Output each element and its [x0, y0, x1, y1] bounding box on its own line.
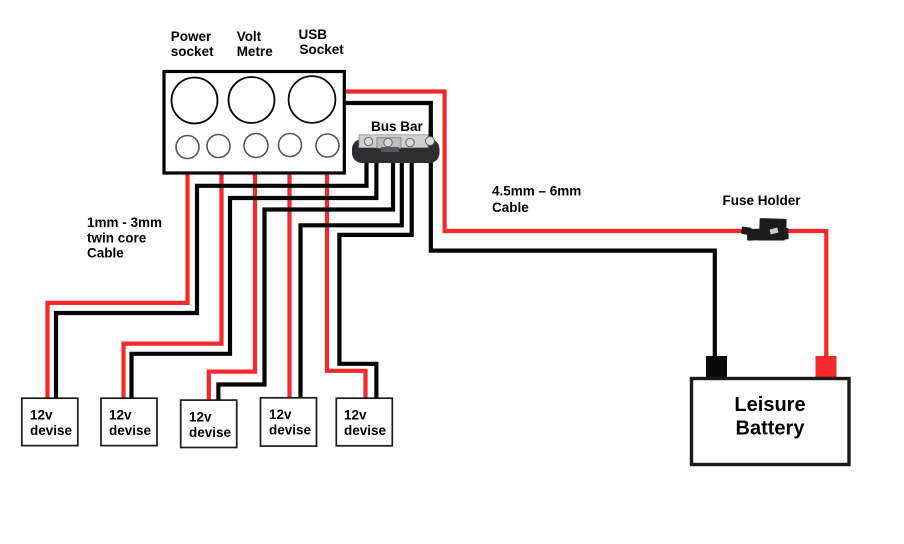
small switch hole 2 — [207, 135, 230, 158]
label: 4.5mm - 6mm Cable — [492, 184, 581, 215]
wire: black bus bar to 12v devise 5 — [339, 152, 411, 402]
svg-text:Bus Bar: Bus Bar — [371, 119, 424, 134]
bus bar screw 3 — [406, 138, 414, 146]
bus bar screw 1 — [364, 137, 372, 145]
svg-text:12v: 12v — [109, 407, 132, 422]
12v devise box 3 — [181, 400, 237, 447]
12v devise box 2 — [101, 398, 157, 445]
svg-text:Socket: Socket — [300, 42, 345, 57]
label: USB Socket — [299, 27, 345, 57]
switch panel (power socket / volt metre / usb socket) — [164, 72, 344, 174]
wire: red twin-core to 12v devise 3 — [209, 170, 255, 404]
svg-text:Leisure: Leisure — [734, 394, 805, 416]
svg-text:12v: 12v — [344, 407, 367, 422]
svg-text:devise: devise — [269, 423, 312, 438]
svg-text:devise: devise — [109, 423, 152, 438]
small switch hole 3 — [244, 134, 268, 158]
label: Volt Metre — [237, 29, 274, 59]
svg-text:12v: 12v — [30, 407, 53, 422]
12v devise box 5 — [336, 398, 392, 446]
svg-text:Battery: Battery — [736, 418, 806, 440]
wire: black bus bar to 12v devise 2 — [132, 152, 377, 402]
svg-text:Fuse Holder: Fuse Holder — [723, 193, 802, 208]
bus bar terminal plate detail — [377, 138, 401, 149]
battery positive terminal — [816, 356, 837, 378]
wire: red twin-core to 12v devise 4 — [287, 170, 291, 402]
bus bar component — [352, 127, 440, 163]
wire: black panel negative to bus bar — [342, 103, 431, 144]
svg-text:4.5mm – 6mm: 4.5mm – 6mm — [492, 184, 581, 199]
usb socket hole — [289, 76, 336, 123]
wire: black bus bar to 12v devise 3 — [218, 152, 393, 404]
bus bar screw 2 — [384, 138, 392, 146]
svg-text:devise: devise — [189, 425, 232, 440]
wire: red twin-core to 12v devise 1 — [48, 170, 188, 402]
wire: black bus bar to 12v devise 1 — [56, 152, 367, 402]
12v devise box 4 — [261, 398, 317, 446]
leisure battery — [692, 356, 850, 465]
fuse holder highlight — [769, 228, 778, 235]
wire: red positive feed, panel to fuse holder and battery + terminal — [342, 92, 826, 359]
svg-text:socket: socket — [171, 44, 214, 59]
svg-text:1mm - 3mm: 1mm - 3mm — [87, 215, 162, 230]
svg-text:12v: 12v — [269, 407, 292, 422]
svg-text:Volt: Volt — [237, 29, 262, 44]
svg-text:Cable: Cable — [492, 200, 529, 215]
wire: red twin-core to 12v devise 2 — [124, 170, 222, 402]
volt metre hole — [229, 77, 275, 123]
wire: red twin-core to 12v devise 5 — [327, 170, 366, 402]
small switch hole 5 — [316, 134, 339, 157]
svg-text:Metre: Metre — [237, 44, 274, 59]
12v devise box 1 — [22, 398, 78, 445]
wire: black bus bar to 12v devise 4 — [301, 152, 402, 402]
small switch hole 4 — [279, 134, 302, 157]
label: Power socket — [171, 29, 214, 59]
label: 1mm - 3mm twin core Cable — [87, 215, 162, 261]
battery negative terminal — [706, 356, 727, 378]
svg-text:Cable: Cable — [87, 246, 124, 261]
svg-text:devise: devise — [344, 423, 387, 438]
svg-text:devise: devise — [30, 423, 73, 438]
svg-text:USB: USB — [299, 27, 328, 42]
small switch hole 1 — [176, 136, 199, 159]
power socket hole — [172, 78, 218, 124]
svg-text:twin core: twin core — [87, 230, 147, 245]
wire: black bus bar to battery - terminal — [431, 152, 715, 358]
bus bar screw 4 — [426, 137, 435, 146]
svg-text:12v: 12v — [189, 409, 212, 424]
wire stub into bus bar — [429, 127, 433, 143]
fuse holder component on red feed — [741, 218, 789, 241]
svg-text:Power: Power — [171, 29, 212, 44]
